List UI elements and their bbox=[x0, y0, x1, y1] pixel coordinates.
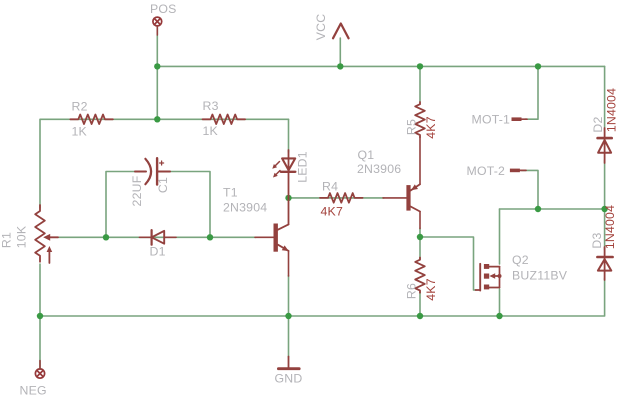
resistor R4 bbox=[320, 193, 363, 203]
wire: Q1 junction to Q2 gate bbox=[420, 237, 476, 290]
junction: C1 left leg / D1 row bbox=[103, 234, 109, 240]
wire: R5 leads bbox=[419, 66, 421, 101]
wire: MOT-2/diode row y=209 bbox=[500, 208, 605, 210]
svg-text:4K7: 4K7 bbox=[321, 205, 343, 219]
diode D3 bbox=[597, 247, 612, 280]
junction: GND / bottom rail bbox=[285, 313, 291, 319]
svg-text:D2: D2 bbox=[591, 116, 605, 132]
resistor R5 bbox=[415, 102, 425, 137]
junction: MOT-1 / top rail bbox=[535, 63, 541, 69]
svg-text:R4: R4 bbox=[322, 180, 338, 194]
wire: LED column from R3 row down to LED1 bbox=[288, 119, 290, 152]
wire: VCC stem bbox=[339, 38, 341, 66]
svg-text:GND: GND bbox=[275, 372, 303, 386]
svg-text:2N3904: 2N3904 bbox=[223, 201, 267, 215]
pin stub of POS bbox=[156, 26, 158, 35]
svg-text:1K: 1K bbox=[72, 125, 88, 139]
junction: C1 right leg / D1 row bbox=[207, 234, 213, 240]
wire: top VCC rail bbox=[157, 65, 604, 67]
svg-text:C1: C1 bbox=[156, 177, 170, 193]
pin MOT-1 bbox=[512, 117, 528, 121]
svg-text:4K7: 4K7 bbox=[424, 116, 438, 138]
Q1 emitter arrowhead bbox=[411, 184, 418, 190]
wire: C1 right leg bbox=[167, 172, 210, 238]
junction: LED1 / R4 / T1 collector bbox=[285, 195, 291, 201]
wiper arrowhead of R1 bbox=[43, 234, 50, 241]
pin stub of NEG bbox=[39, 361, 41, 370]
svg-text:1K: 1K bbox=[203, 124, 219, 138]
svg-text:1N4004: 1N4004 bbox=[603, 205, 617, 249]
svg-text:4K7: 4K7 bbox=[424, 278, 438, 300]
svg-text:R1: R1 bbox=[0, 232, 13, 248]
junction: Q1 collector / R6 / gate wire bbox=[417, 234, 423, 240]
trimmer arrowhead of R1 bbox=[47, 246, 53, 252]
diode D2 bbox=[598, 128, 612, 163]
svg-text:T1: T1 bbox=[223, 186, 238, 200]
wire: Q2 source down to bottom rail bbox=[499, 289, 501, 316]
wire: MOT-2 to D2-D3 row bbox=[522, 170, 539, 209]
T1 emitter arrowhead bbox=[282, 245, 289, 251]
LED1 emission arrowheads bbox=[272, 164, 277, 169]
junction: diode row / right rail bbox=[601, 206, 607, 212]
connector NEG (circle with X) bbox=[35, 369, 44, 378]
Q2 body-diode arrowhead bbox=[489, 273, 495, 279]
svg-text:Q2: Q2 bbox=[512, 253, 529, 267]
junction: POS stem / R2-R3 row bbox=[154, 116, 160, 122]
junction: R6 / bottom rail bbox=[417, 313, 423, 319]
svg-text:LED1: LED1 bbox=[295, 151, 309, 183]
junction: POS stem / top rail bbox=[154, 63, 160, 69]
wire: MOT-1 to top rail bbox=[525, 66, 538, 119]
capacitor C1 bbox=[135, 158, 170, 184]
svg-text:R5: R5 bbox=[405, 119, 419, 135]
wire: Q1 collector down to junction bbox=[419, 228, 421, 237]
wire: right rail between D2 and D3 junction bbox=[604, 160, 606, 250]
svg-text:MOT-2: MOT-2 bbox=[467, 164, 506, 178]
resistor R3 bbox=[203, 115, 246, 125]
svg-text:R3: R3 bbox=[203, 99, 219, 113]
svg-text:NEG: NEG bbox=[20, 384, 47, 397]
svg-text:VCC: VCC bbox=[314, 14, 328, 41]
wire: R1 wiper row to D1 row and T1 base bbox=[58, 236, 256, 238]
svg-text:Q1: Q1 bbox=[358, 148, 375, 162]
junction: Q2 source / bottom rail bbox=[496, 313, 502, 319]
MOSFET Q2 (BUZ11BV) bbox=[476, 264, 500, 291]
junction: left column / bottom rail bbox=[37, 313, 43, 319]
resistor R2 bbox=[70, 115, 113, 125]
svg-text:POS: POS bbox=[150, 2, 177, 16]
svg-text:10K: 10K bbox=[14, 225, 28, 248]
transistor T1 (NPN 2N3904) bbox=[255, 199, 289, 276]
svg-text:D1: D1 bbox=[150, 245, 166, 259]
wire: T1 emitter down to bottom rail bbox=[288, 276, 290, 317]
svg-text:R6: R6 bbox=[405, 283, 419, 299]
wire: Q2 drain up to row bbox=[499, 209, 501, 264]
wire: GND stem green part bbox=[288, 316, 290, 357]
svg-text:2N3906: 2N3906 bbox=[357, 162, 401, 176]
svg-text:MOT-1: MOT-1 bbox=[472, 113, 511, 127]
svg-text:22UF: 22UF bbox=[130, 175, 144, 206]
wire: R6 leads bbox=[419, 237, 421, 259]
connector POS (circle with X) bbox=[153, 17, 162, 26]
wire: R4 row from LED junction to Q1 base bbox=[289, 197, 385, 199]
supply VCC arrow bbox=[333, 24, 349, 39]
wire: R2-R3 row y=119.3 with left drop to R1 bbox=[40, 119, 289, 208]
junction: VCC / top rail bbox=[337, 63, 343, 69]
potentiometer R1 bbox=[35, 205, 58, 263]
resistor R6 bbox=[415, 258, 425, 293]
wire: right rail x=604.6 from top rail to D2 bbox=[604, 66, 606, 131]
svg-text:1N4004: 1N4004 bbox=[604, 88, 618, 132]
transistor Q1 (PNP 2N3906) bbox=[383, 137, 420, 229]
wire: R1 bottom to NEG bbox=[39, 264, 41, 368]
junction: MOT-2 / diode row bbox=[535, 206, 541, 212]
svg-text:R2: R2 bbox=[72, 100, 88, 114]
ground GND symbol bbox=[278, 357, 299, 369]
wire: right rail below D3 to bottom rail bbox=[39, 278, 605, 316]
wire: C1 left leg bbox=[106, 172, 141, 238]
svg-text:BUZ11BV: BUZ11BV bbox=[512, 269, 568, 283]
junction: R5 / top rail bbox=[417, 63, 423, 69]
wire: POS stem bbox=[156, 28, 158, 120]
Q2 body junction dot bbox=[498, 274, 502, 278]
LED LED1 bbox=[275, 150, 295, 199]
pin MOT-2 bbox=[510, 169, 526, 173]
svg-text:D3: D3 bbox=[590, 232, 604, 248]
diode D1 bbox=[140, 230, 177, 245]
plus sign of C1 bbox=[160, 161, 164, 165]
